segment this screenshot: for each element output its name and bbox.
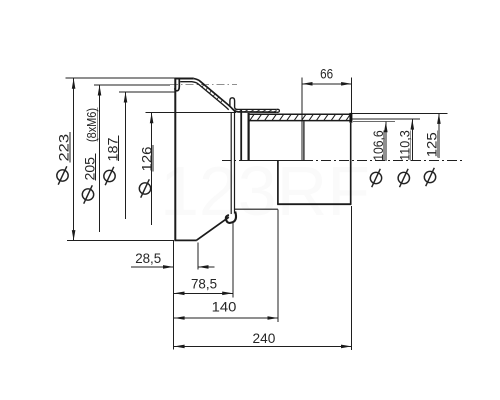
svg-text:223: 223 — [57, 134, 73, 162]
svg-text:140: 140 — [212, 299, 237, 315]
svg-text:125: 125 — [425, 132, 441, 157]
svg-text:28,5: 28,5 — [135, 250, 161, 266]
svg-text:(8xM6): (8xM6) — [84, 108, 99, 142]
svg-text:123RF: 123RF — [160, 152, 370, 230]
svg-text:110,3: 110,3 — [398, 130, 414, 161]
svg-text:126: 126 — [139, 146, 155, 171]
svg-text:240: 240 — [253, 330, 276, 346]
svg-text:66: 66 — [320, 66, 333, 82]
svg-text:106,6: 106,6 — [371, 130, 387, 161]
svg-text:205: 205 — [82, 157, 98, 181]
svg-text:187: 187 — [105, 137, 121, 161]
svg-text:78,5: 78,5 — [191, 275, 217, 291]
